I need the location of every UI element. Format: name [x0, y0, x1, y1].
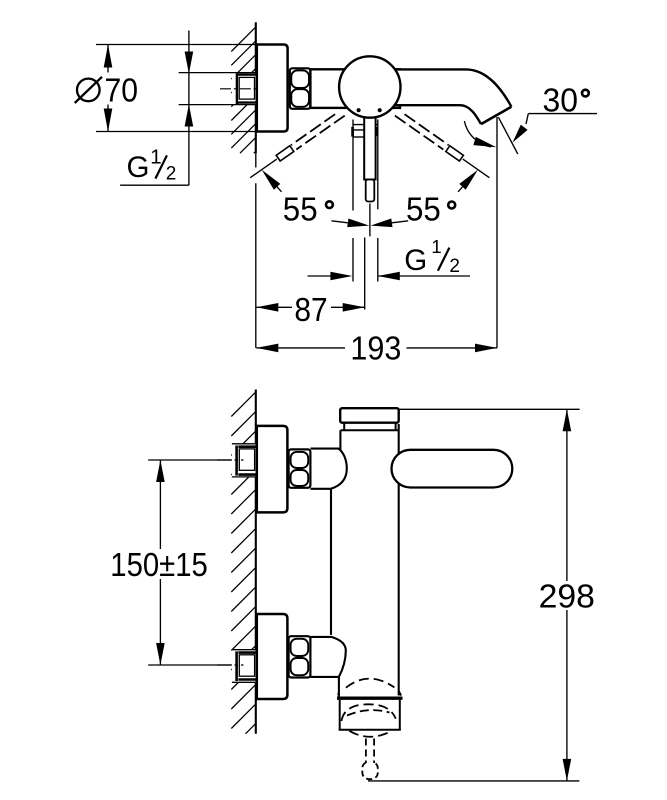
- arrow 150 up: [156, 460, 165, 482]
- arc 30deg: [464, 121, 491, 147]
- upper pipe white fill: [232, 444, 257, 477]
- wall face line (top figure): [255, 22, 257, 153]
- dim 298 line: [566, 409, 568, 781]
- ext line flange bottom: [96, 131, 257, 133]
- inlet pipe thick bottom bar: [238, 101, 257, 103]
- arrow G12w right: [378, 272, 400, 281]
- inlet pipe bottom edge: [179, 104, 257, 106]
- arrow 87 right: [343, 303, 365, 312]
- upper pipe bottom edge: [232, 476, 257, 478]
- upper boss: [311, 449, 347, 489]
- inlet pipe centerline: [220, 88, 256, 90]
- lever stick: [364, 110, 375, 202]
- housing top corner flares: [338, 691, 401, 696]
- arrow 298 up: [563, 409, 572, 431]
- arrow D70 up: [104, 45, 113, 68]
- dim 87 line: [256, 306, 364, 308]
- arrow G12 up: [185, 104, 194, 126]
- hidden outlet stem: [362, 739, 378, 780]
- arrow 55 center-right: [371, 219, 409, 228]
- lever swing dashed line right: [395, 114, 449, 149]
- body cap: [340, 408, 399, 423]
- arrow 193 left: [256, 344, 278, 353]
- spout (top figure): [393, 69, 511, 124]
- outlet axis ext line: [364, 238, 366, 310]
- lower pipe white fill: [232, 650, 257, 683]
- inlet pipe thick top bar: [238, 73, 257, 75]
- arrow 87 left: [256, 303, 278, 312]
- upper flange (bottom figure): [257, 426, 288, 513]
- lever tip outline right (55deg): [446, 146, 464, 161]
- cap neck: [341, 423, 399, 430]
- svg-text:55: 55: [283, 192, 318, 229]
- dim G12 width line: [378, 275, 470, 277]
- outlet housing: [337, 697, 403, 730]
- hidden dome arc above housing: [346, 679, 395, 688]
- lower pipe top edge: [232, 649, 257, 651]
- svg-text:55: 55: [406, 192, 441, 229]
- inlet pipe left cap: [236, 73, 238, 104]
- ext line cap top: [399, 408, 580, 410]
- lower pipe thick bottom bar: [238, 678, 256, 681]
- flow direction line 30deg: [498, 117, 517, 154]
- lower nut (bottom figure): [289, 636, 311, 677]
- lower flange (bottom figure): [257, 614, 288, 699]
- lower pipe bottom edge: [232, 681, 257, 683]
- ext line lower union axis: [148, 664, 232, 666]
- ext line flange top: [96, 44, 257, 46]
- union nut (top figure): [290, 68, 311, 109]
- arrow 30 leader: [513, 125, 528, 143]
- dim 193 line: [256, 347, 497, 349]
- arrow 298 down: [563, 759, 572, 781]
- svg-text:30: 30: [543, 82, 579, 119]
- dim G12 width left: [308, 275, 332, 277]
- handle ball: [339, 56, 400, 117]
- lower pipe thick top bar: [238, 651, 256, 654]
- svg-text:1: 1: [150, 146, 161, 169]
- lever handle (bottom figure): [392, 450, 513, 488]
- lever swing dashed line left: [291, 114, 345, 149]
- upper pipe left cap: [235, 446, 238, 476]
- arrow D70 down: [104, 109, 113, 132]
- arrow 150 down: [156, 643, 165, 665]
- arrow 193 right: [475, 344, 497, 353]
- lower pipe left cap: [235, 651, 238, 681]
- leader underline G12 top: [120, 184, 189, 186]
- inlet pipe top edge: [179, 72, 257, 74]
- arrow 55 right: [458, 170, 478, 192]
- label D70: [75, 73, 138, 110]
- arrow 30 arc: [473, 137, 496, 147]
- hidden dome arc inside housing: [347, 710, 390, 715]
- svg-text:2: 2: [166, 164, 177, 185]
- handle dots: [357, 108, 382, 112]
- svg-text:70: 70: [105, 73, 139, 110]
- wall face line (bottom figure): [255, 390, 257, 734]
- angle leg right 55deg: [463, 159, 490, 178]
- wall ext line: [255, 153, 257, 348]
- svg-text:G: G: [127, 151, 150, 184]
- svg-text:193: 193: [350, 331, 401, 368]
- dim line D70: [107, 45, 109, 132]
- hidden dome arc below housing: [349, 731, 391, 737]
- leader line G12 top: [188, 31, 190, 186]
- upper nut (bottom figure): [289, 449, 311, 487]
- dim 150 line: [159, 460, 161, 665]
- arrow G12 down: [185, 52, 194, 74]
- upper body section edges: [339, 430, 341, 449]
- lower neck left edge: [338, 677, 340, 697]
- angle leg left 55deg: [250, 159, 277, 178]
- upper pipe top edge: [232, 443, 257, 445]
- spout ext vertical line: [496, 117, 498, 348]
- label G 1/2 top: [127, 146, 177, 185]
- label 55 right: [406, 192, 455, 229]
- svg-text:2: 2: [449, 256, 460, 277]
- svg-text:1: 1: [431, 236, 441, 257]
- ext line upper union axis: [148, 459, 232, 461]
- leader 30deg: [526, 114, 597, 124]
- hidden dome equator arc: [342, 704, 396, 721]
- faucet body (bottom figure): [331, 424, 401, 697]
- upper pipe thick top bar: [238, 445, 256, 448]
- upper pipe inner rect: [239, 449, 254, 470]
- lever tip outline left (55deg): [276, 146, 294, 161]
- arrow 55 center-left: [332, 219, 370, 228]
- svg-text:298: 298: [539, 578, 595, 615]
- arrow 55 left: [262, 170, 282, 192]
- center axis line: [369, 204, 371, 237]
- inlet pipe inner rect: [239, 77, 254, 99]
- ext line outlet bottom: [368, 780, 579, 782]
- flange (top figure): [257, 45, 288, 132]
- upper pipe thick bottom bar: [238, 473, 256, 476]
- outlet nipple (top figure): [353, 120, 378, 282]
- svg-text:G: G: [404, 244, 427, 277]
- svg-text:150±15: 150±15: [110, 547, 208, 584]
- wall hatching (bottom figure): [231, 392, 256, 734]
- inlet pipe white fill: [232, 73, 257, 105]
- wall hatching (top figure): [231, 27, 256, 153]
- lower boss: [311, 637, 346, 677]
- svg-text:87: 87: [294, 292, 327, 329]
- label G 1/2 mid: [404, 236, 460, 277]
- label 30: [543, 82, 589, 119]
- upper pipe centerline: [217, 459, 244, 461]
- faucet body (top figure): [310, 69, 400, 108]
- lower pipe inner rect: [239, 655, 254, 676]
- arrow G12w left: [330, 272, 352, 281]
- lower pipe centerline: [217, 664, 244, 666]
- label 55 left: [283, 192, 333, 229]
